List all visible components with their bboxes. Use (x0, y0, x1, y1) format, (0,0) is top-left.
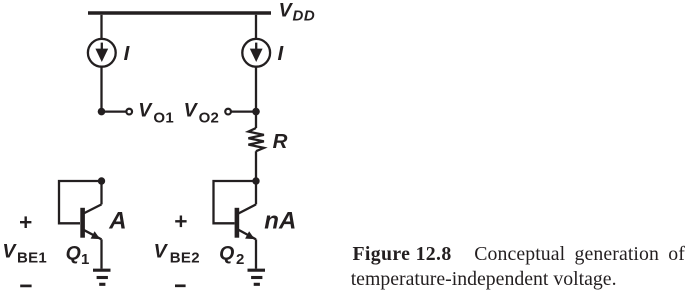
svg-text:DD: DD (293, 7, 316, 24)
svg-text:V: V (154, 240, 169, 262)
wire: VO2 terminal stub to right branch (231, 110, 256, 112)
polarity plus of VBE2 (175, 216, 186, 228)
polarity minus of VBE1 (20, 285, 31, 288)
svg-text:BE2: BE2 (170, 250, 200, 267)
svg-text:I: I (278, 42, 285, 65)
svg-text:V: V (279, 0, 294, 21)
wire: right current source to node VO2 (255, 67, 257, 112)
wire: stub to VO1 terminal (102, 110, 127, 112)
label Q2 (219, 242, 244, 268)
polarity plus of VBE1 (20, 216, 31, 228)
label VO2 (184, 100, 220, 127)
transistor Q1 (83, 181, 102, 269)
svg-text:1: 1 (81, 251, 89, 268)
current source I1 circle (88, 39, 116, 67)
svg-text:V: V (184, 100, 199, 122)
svg-text:Q: Q (66, 242, 81, 264)
node VO1 open terminal (126, 109, 132, 115)
current source I2 arrow (250, 43, 263, 62)
wire: VDD top rail (88, 11, 271, 15)
svg-text:BE1: BE1 (17, 250, 47, 267)
node VO1 junction dot (98, 108, 106, 116)
node VO2 junction dot (252, 108, 260, 116)
svg-text:Q: Q (219, 242, 234, 264)
svg-text:Figure 12.8: Figure 12.8 (353, 243, 452, 265)
current source I2 circle (242, 39, 270, 67)
label VO1 (138, 100, 174, 127)
wire: right branch rail to current source (255, 15, 257, 40)
svg-text:R: R (273, 130, 288, 153)
wire: Q1 diode-connect loop (59, 181, 102, 223)
label VBE1 (2, 240, 47, 266)
svg-text:O1: O1 (153, 109, 174, 126)
node VO2 open terminal (225, 109, 231, 115)
wire: resistor R to Q2 collector (255, 151, 257, 181)
label Q1 (66, 242, 90, 268)
label VDD (279, 0, 316, 24)
svg-text:A: A (108, 207, 126, 234)
current source I1 arrow (95, 43, 108, 62)
wire: left branch rail to current source (100, 15, 102, 40)
node Q2 collector-base junction dot (252, 177, 259, 184)
ground at Q2 emitter (248, 270, 266, 284)
label VBE2 (154, 240, 200, 266)
transistor Q2 (237, 181, 256, 269)
wire: Q2 diode-connect loop (214, 181, 257, 223)
caption: Figure 12.8 Conceptual generation of temperature-independent voltage. (351, 243, 686, 290)
node Q1 collector-base junction dot (98, 177, 105, 184)
svg-text:V: V (138, 100, 153, 122)
polarity minus of VBE2 (175, 284, 186, 287)
svg-text:O2: O2 (199, 109, 220, 126)
svg-text:V: V (2, 240, 17, 262)
svg-text:nA: nA (264, 207, 296, 234)
svg-text:temperature-independent voltag: temperature-independent voltage. (351, 268, 617, 290)
wire: left current source to node VO1 (100, 67, 102, 112)
wire: node VO2 to resistor R (255, 112, 257, 128)
svg-text:Conceptual generation of: Conceptual generation of (474, 243, 685, 265)
svg-text:2: 2 (236, 251, 244, 268)
ground at Q1 emitter (93, 270, 111, 284)
svg-text:I: I (124, 42, 131, 65)
resistor R zigzag (248, 128, 264, 151)
